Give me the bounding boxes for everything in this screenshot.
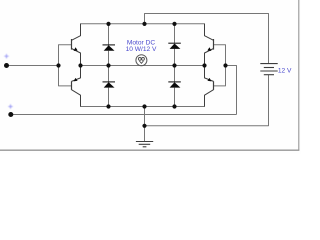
transistor Q2 emitter arrow: [74, 78, 78, 82]
label motor name: [126, 39, 157, 53]
wire right base riser up: [214, 45, 226, 66]
node motor rail right diode: [172, 63, 176, 67]
battery V1: [260, 64, 277, 75]
node terminal 1 pin marker: [4, 54, 9, 59]
svg-text:10 W/12 V: 10 W/12 V: [126, 46, 157, 53]
node top rail right diode: [172, 22, 176, 26]
svg-text:12 V: 12 V: [278, 68, 292, 75]
wire left diode column to bottom rail: [108, 88, 110, 107]
wire ground stem: [144, 126, 146, 142]
node top rail battery feed: [142, 22, 146, 26]
transistor Q1 top-left bar: [71, 39, 73, 50]
transistor Q3 emitter arrow: [207, 47, 211, 51]
transistor Q4 collector: [205, 90, 214, 107]
transistor Q3 emitter: [205, 49, 214, 66]
wire left diode column upper: [108, 24, 110, 45]
wire right diode column to bottom rail: [174, 88, 176, 107]
diode D1 upper-left: [103, 45, 116, 51]
transistor Q3 top-right bar: [213, 39, 215, 50]
wire right diode column lower: [174, 49, 176, 82]
ground: [136, 142, 153, 147]
transistor Q2 emitter: [72, 66, 81, 82]
wire battery top feed: [145, 14, 269, 64]
node top rail left diode: [106, 22, 110, 26]
border bottom edge: [0, 149, 299, 151]
node terminal 2 dot: [8, 112, 13, 117]
transistor Q4 emitter: [205, 66, 214, 82]
label battery value 12 V: [278, 68, 292, 75]
node right output junction: [202, 63, 206, 67]
node right base junction: [223, 63, 227, 67]
transistor Q2 bottom-left bar: [71, 81, 73, 90]
node left base junction: [56, 63, 60, 67]
border right edge: [298, 0, 300, 151]
diode D4 lower-right: [168, 82, 181, 88]
motor M1: [136, 55, 147, 66]
wire right diode column upper: [174, 24, 176, 43]
transistor Q4 bottom-right bar: [213, 81, 215, 90]
node terminal 2 pin marker: [8, 104, 13, 109]
node ground battery junction: [142, 124, 146, 128]
wire ground column: [144, 107, 146, 126]
diode D2 lower-left: [103, 82, 116, 88]
wire left diode column lower: [108, 51, 110, 82]
wire motor rail: [81, 65, 205, 67]
transistor Q1 collector: [72, 24, 81, 41]
diode D3 upper-right: [168, 43, 181, 49]
transistor Q1 emitter arrow: [74, 47, 78, 51]
node bottom rail left diode: [106, 104, 110, 108]
transistor Q4 emitter arrow: [207, 78, 211, 82]
wire battery negative return: [145, 75, 269, 126]
wire top rail: [81, 24, 205, 36]
node motor rail left diode: [106, 63, 110, 67]
wire terminal1 to base node: [7, 65, 59, 67]
transistor Q3 collector: [205, 24, 214, 41]
node terminal 1 dot: [4, 63, 9, 68]
node bottom rail ground: [142, 104, 146, 108]
wire left base riser down: [59, 66, 72, 86]
canvas background: [0, 0, 301, 154]
wire right base to input riser: [226, 66, 237, 115]
wire terminal2 to right bases: [11, 114, 237, 116]
transistor Q2 collector: [72, 90, 81, 107]
node left output junction: [78, 63, 82, 67]
wire right base riser down: [214, 66, 226, 86]
transistor Q1 emitter: [72, 49, 81, 66]
wire bottom rail: [81, 95, 205, 106]
wire left base riser up: [59, 45, 72, 66]
node bottom rail right diode: [172, 104, 176, 108]
